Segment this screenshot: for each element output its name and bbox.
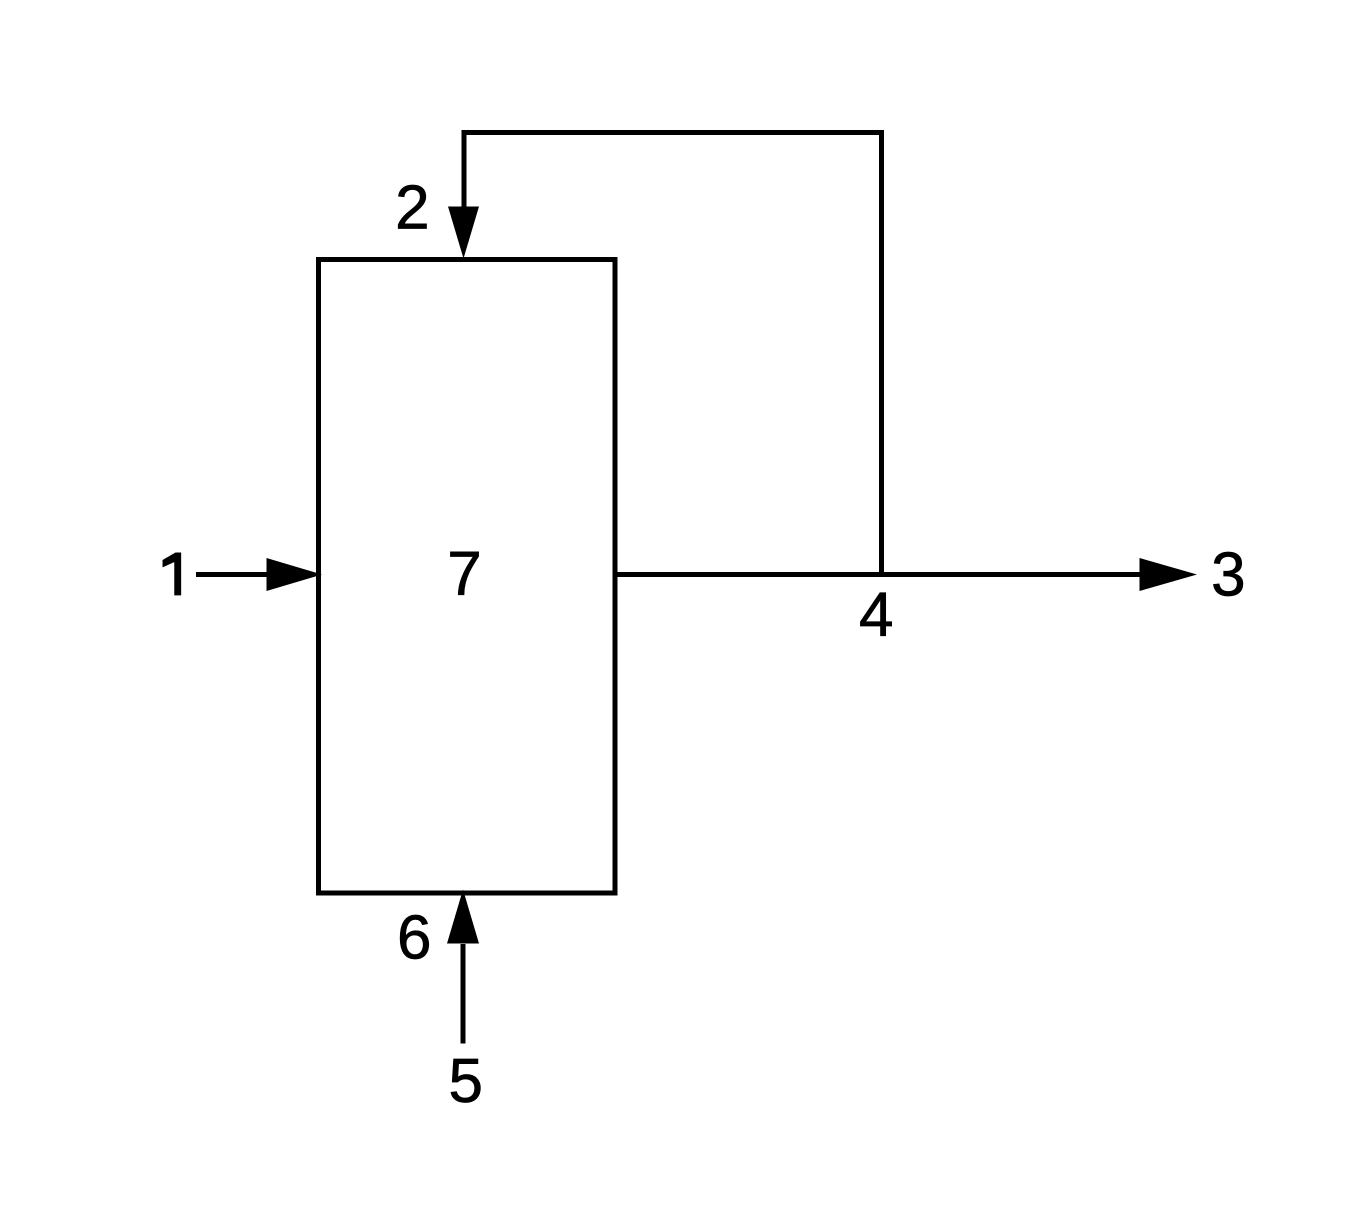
- svg-text:4: 4: [859, 580, 893, 649]
- svg-text:5: 5: [448, 1047, 482, 1116]
- svg-text:7: 7: [447, 540, 481, 609]
- svg-text:2: 2: [395, 174, 429, 243]
- svg-text:3: 3: [1211, 541, 1245, 610]
- svg-text:6: 6: [397, 903, 431, 972]
